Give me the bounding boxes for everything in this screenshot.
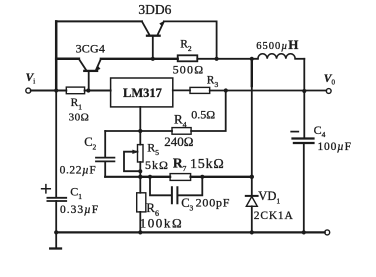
transistor Q2 3CG4 collector diagonal	[79, 59, 87, 71]
node R5/R6/C2/R7 junction	[138, 175, 142, 179]
svg-text:0.33µF: 0.33µF	[60, 204, 99, 216]
transistor Q2 3CG4 emitter diagonal	[96, 59, 101, 71]
node 3DD6 base junction	[151, 57, 155, 61]
svg-text:240Ω: 240Ω	[164, 134, 193, 149]
svg-text:V0: V0	[324, 73, 336, 87]
diode VD1 anode lead	[251, 206, 253, 232]
wire inductor output corner down	[303, 59, 305, 91]
wire R7 to diode line	[191, 176, 252, 178]
node ADJ junction	[138, 129, 142, 133]
svg-text:VD1: VD1	[258, 189, 280, 205]
svg-text:30Ω: 30Ω	[69, 111, 90, 123]
svg-text:200pF: 200pF	[196, 195, 231, 209]
resistor R1 body	[66, 87, 84, 94]
wire feedback rail to R7	[140, 176, 170, 178]
diode VD1 cathode bar	[246, 195, 258, 197]
terminal ground right	[325, 230, 330, 235]
wire Vi lead	[31, 90, 67, 92]
capacitor C2 top lead	[104, 131, 106, 157]
transistor Q1 3DD6 base bar	[147, 35, 160, 37]
wire inductor right	[295, 58, 304, 60]
capacitor C4 plates	[293, 139, 314, 144]
capacitor C4 top lead	[303, 91, 305, 138]
diode VD1 triangle	[246, 197, 257, 207]
node R7 / diode junction	[250, 175, 254, 179]
wire LM317 ADJ lead down	[139, 107, 141, 131]
capacitor C1 plus mark	[42, 185, 51, 193]
node ground rail left	[54, 230, 58, 234]
wire R3 to Vo	[210, 90, 327, 92]
wire top rail left segment	[56, 20, 142, 22]
wire R4 right to output rail	[191, 91, 226, 132]
terminal Vi	[26, 88, 31, 93]
wire diode line vertical (inductor junction down)	[251, 59, 253, 86]
wire corner down from top rail to R2 output node	[216, 21, 218, 58]
wire R2 to inductor	[197, 58, 258, 60]
resistor R6 bottom lead	[139, 212, 141, 233]
node R3 / R4 junction	[224, 88, 228, 92]
capacitor C2 bottom lead	[104, 161, 106, 176]
node diode ground junction	[250, 230, 254, 234]
resistor R5 top lead	[139, 131, 141, 145]
wire ADJ rail left to C2	[105, 130, 172, 132]
wire LM317 output to R3	[173, 89, 190, 91]
wire C2 to R5 bottom junction	[105, 176, 140, 178]
capacitor C2 plates	[96, 158, 114, 162]
svg-text:R4: R4	[174, 112, 187, 130]
transistor Q1 3DD6 collector diagonal	[142, 21, 150, 35]
wire left vertical from top rail to input rail	[55, 21, 58, 90]
resistor R4 body	[172, 128, 191, 135]
resistor R5 bottom lead	[139, 162, 141, 177]
terminal Vo	[326, 89, 331, 94]
transistor Q2 3CG4 base bar	[84, 70, 97, 72]
svg-text:3CG4: 3CG4	[76, 42, 105, 56]
capacitor C4 bottom lead	[303, 143, 305, 232]
svg-text:C4: C4	[314, 123, 326, 139]
resistor R5 wiper arrowhead	[133, 150, 138, 154]
wire ground stub	[55, 232, 57, 247]
capacitor C4 plus mark	[291, 131, 298, 133]
transistor Q2 3CG4 base lead	[88, 71, 90, 91]
node R5 wiper junction	[138, 169, 142, 173]
capacitor C3 plates	[172, 187, 178, 203]
IC U1 LM317 box	[111, 78, 173, 107]
wire 3CG4 emitter to R2	[101, 58, 178, 60]
node C4 ground junction	[302, 230, 306, 234]
resistor R2 body	[178, 55, 198, 61]
svg-text:R5: R5	[147, 141, 159, 158]
svg-text:0.5Ω: 0.5Ω	[191, 107, 215, 121]
svg-text:R7: R7	[173, 155, 187, 173]
resistor R5 wiper arm	[124, 152, 140, 172]
svg-text:500Ω: 500Ω	[173, 62, 205, 76]
svg-text:Vi: Vi	[26, 72, 36, 86]
resistor R6 body	[137, 193, 146, 212]
capacitor C1 plates	[47, 198, 66, 201]
node C3 left junction	[148, 175, 152, 179]
transistor Q2 3CG4 emitter arrow	[96, 66, 100, 71]
node R6 ground junction	[138, 230, 142, 234]
svg-text:3DD6: 3DD6	[138, 2, 171, 17]
svg-text:R2: R2	[180, 38, 192, 53]
svg-text:LM317: LM317	[123, 86, 162, 100]
svg-text:C1: C1	[70, 185, 82, 201]
node C3 right junction	[200, 175, 204, 179]
svg-text:2CK1A: 2CK1A	[254, 210, 294, 222]
node inductor left / diode junction	[250, 57, 254, 61]
resistor R3 body	[190, 87, 210, 93]
capacitor C3 right lead	[178, 177, 202, 196]
wire bottom ground rail	[56, 231, 325, 233]
svg-text:100µF: 100µF	[318, 141, 352, 153]
capacitor C3 left lead	[150, 177, 171, 196]
wire R1 to LM317	[85, 90, 111, 92]
resistor R6 top lead	[139, 177, 141, 193]
inductor L1 6500uH coil	[258, 54, 295, 59]
node input junction (left vertical)	[54, 88, 58, 92]
svg-text:5kΩ: 5kΩ	[145, 158, 169, 172]
node R2 / top rail junction	[215, 57, 219, 61]
ground symbol bar	[50, 247, 61, 249]
resistor R5 body	[138, 145, 144, 162]
capacitor C1 bottom lead	[55, 201, 57, 232]
capacitor C1 top lead	[55, 91, 57, 198]
transistor Q1 3DD6 emitter arrow	[160, 21, 164, 26]
node 3CG4 base junction	[86, 88, 90, 92]
wire top rail right segment	[164, 20, 217, 22]
wire 3CG4 collector lead	[56, 58, 79, 61]
transistor Q1 3DD6 emitter diagonal	[157, 21, 164, 35]
svg-text:R1: R1	[71, 97, 83, 112]
svg-text:6500µH: 6500µH	[256, 37, 299, 52]
node inductor output junction	[302, 89, 306, 93]
svg-text:15kΩ: 15kΩ	[190, 157, 225, 172]
svg-text:0.22µF: 0.22µF	[60, 165, 97, 177]
svg-text:100kΩ: 100kΩ	[140, 216, 184, 231]
transistor Q1 3DD6 base lead	[152, 36, 154, 59]
svg-text:C2: C2	[84, 135, 96, 152]
svg-text:C3: C3	[181, 196, 193, 212]
resistor R7 body	[170, 174, 191, 181]
